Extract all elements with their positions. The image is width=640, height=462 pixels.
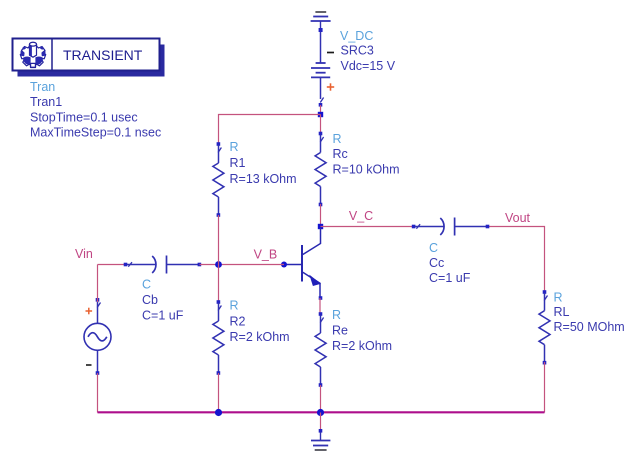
wire Cc to Vout corner to RL	[488, 227, 545, 292]
svg-text:R=2 kOhm: R=2 kOhm	[332, 339, 392, 353]
DC voltage source SRC3 (battery)	[311, 32, 330, 103]
TRANSIENT simulation controller box	[13, 39, 165, 77]
resistor RL	[539, 290, 550, 364]
svg-text:Vout: Vout	[505, 211, 531, 225]
pin dot ground bottom	[319, 429, 323, 433]
ground (top, above SRC3)	[311, 12, 331, 30]
minus sign SRC3	[327, 52, 334, 54]
resistor R1	[213, 142, 224, 217]
svg-text:MaxTimeStep=0.1 nsec: MaxTimeStep=0.1 nsec	[30, 126, 161, 140]
transistor Q1	[285, 228, 321, 297]
plus sign SRC3	[327, 83, 334, 90]
wire Cb to V_B junction to Q1 base	[200, 264, 285, 266]
wire Rc to V_C junction	[320, 204, 322, 227]
svg-text:R: R	[230, 140, 239, 154]
svg-text:R=50 MOhm: R=50 MOhm	[554, 320, 625, 334]
wire Vin top	[97, 265, 99, 303]
svg-text:C=1 uF: C=1 uF	[142, 309, 184, 323]
svg-text:V_B: V_B	[254, 247, 278, 261]
wire top junction to Rc	[320, 115, 322, 134]
ground (bottom)	[311, 432, 330, 450]
svg-text:Re: Re	[332, 324, 348, 338]
emitter pin dot Q1	[319, 296, 323, 300]
minus sign Vin source	[86, 364, 92, 366]
svg-text:V_C: V_C	[349, 209, 373, 223]
svg-text:R1: R1	[230, 156, 246, 170]
wire top bus to R1	[219, 115, 321, 145]
svg-text:Tran1: Tran1	[30, 95, 62, 109]
svg-text:R=2 kOhm: R=2 kOhm	[230, 330, 290, 344]
svg-text:R2: R2	[230, 315, 246, 329]
svg-text:SRC3: SRC3	[341, 44, 374, 58]
pin direction tick	[320, 98, 323, 103]
svg-text:Rc: Rc	[333, 147, 348, 161]
capacitor Cc	[412, 218, 490, 236]
ground bus wire (bottom)	[98, 411, 545, 413]
junction dot V_B	[215, 261, 222, 268]
svg-text:R: R	[554, 291, 563, 305]
svg-text:R=10 kOhm: R=10 kOhm	[333, 162, 400, 176]
base pin dot Q1	[281, 262, 287, 268]
svg-text:Vin: Vin	[75, 247, 93, 261]
svg-text:Cc: Cc	[429, 256, 444, 270]
wire RL to ground bus	[544, 362, 546, 413]
wire V_B junction to R2	[218, 265, 220, 303]
svg-text:R: R	[333, 132, 342, 146]
resistor Rc	[315, 132, 326, 207]
resistor Re	[315, 312, 326, 387]
gear icon	[20, 42, 45, 67]
svg-text:C: C	[429, 241, 438, 255]
wire Re to ground bus	[320, 385, 322, 413]
pin dot SRC3 bottom	[319, 103, 323, 107]
svg-text:TRANSIENT: TRANSIENT	[63, 47, 143, 63]
svg-text:R: R	[332, 308, 341, 322]
wire R2 to ground bus	[218, 373, 220, 413]
wire SRC3 to top junction	[320, 105, 322, 115]
wire R1 to V_B junction	[218, 215, 220, 265]
wire V_B net: source to Cb	[98, 264, 125, 266]
svg-text:C: C	[142, 278, 151, 292]
svg-text:Cb: Cb	[142, 293, 158, 307]
junction dot bus R2	[215, 409, 222, 416]
svg-text:RL: RL	[554, 305, 570, 319]
svg-text:Vdc=15 V: Vdc=15 V	[341, 59, 396, 73]
Vin AC source SRC	[84, 298, 111, 375]
pin dot ground-SRC3	[319, 28, 323, 32]
svg-text:Tran: Tran	[30, 80, 55, 94]
Tran simulation text block	[30, 80, 161, 140]
svg-text:R=13 kOhm: R=13 kOhm	[230, 172, 297, 186]
capacitor Cb	[124, 256, 202, 274]
svg-text:C=1 uF: C=1 uF	[429, 271, 471, 285]
wire Vin source to bus	[97, 373, 99, 413]
svg-text:StopTime=0.1 usec: StopTime=0.1 usec	[30, 110, 138, 124]
wire bus to ground symbol	[320, 413, 322, 431]
plus sign Vin source	[86, 308, 93, 315]
wire V_C to Cc	[321, 226, 414, 228]
wire Q1 emitter to Re	[319, 298, 321, 314]
resistor R2	[213, 300, 224, 375]
junction dot bus Re/ground	[317, 409, 324, 416]
svg-text:R: R	[230, 299, 239, 313]
svg-text:V_DC: V_DC	[340, 29, 373, 43]
junction dot top bus	[318, 112, 323, 117]
junction dot V_C	[318, 224, 323, 229]
